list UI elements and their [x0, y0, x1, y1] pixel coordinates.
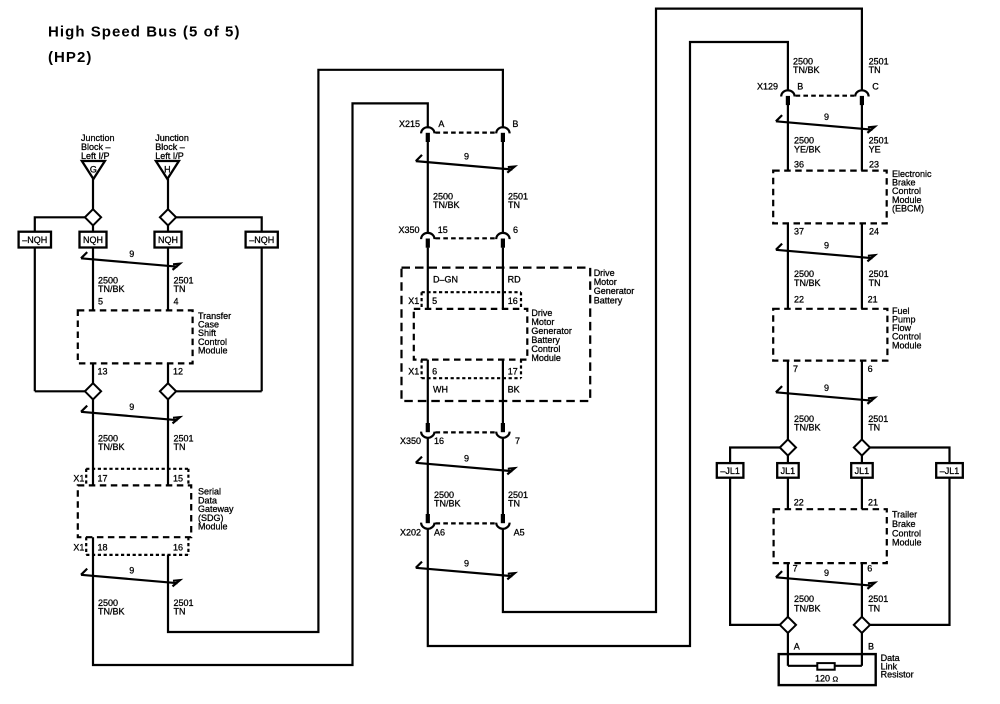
twisted pair symbol [776, 244, 875, 262]
wire junction diamond H [160, 209, 176, 225]
svg-text:21: 21 [868, 295, 878, 305]
svg-text:A: A [438, 119, 444, 129]
module: Trailer Brake Control Module [774, 509, 887, 563]
svg-text:X1: X1 [408, 296, 419, 306]
wire label 2500 TN/BK [794, 269, 821, 288]
wire 2501 YE X129 to EBCM [861, 105, 863, 171]
net tag NQH (G) [80, 232, 107, 248]
svg-text:5: 5 [432, 296, 437, 306]
svg-text:BK: BK [508, 385, 520, 395]
wire diamond to JL1 right [861, 455, 863, 463]
svg-text:16: 16 [434, 436, 444, 446]
wire 2501 X202 A5 to X129 C [503, 9, 862, 612]
svg-text:Left I/P: Left I/P [81, 151, 110, 161]
svg-text:Module: Module [892, 538, 922, 548]
twisted pair symbol [416, 457, 515, 475]
svg-text:120 Ω: 120 Ω [815, 673, 839, 683]
connector X1 band (DMGB bottom) [422, 360, 521, 379]
wire -NQH right join [175, 390, 262, 392]
svg-text:TN/BK: TN/BK [794, 603, 821, 613]
connector X202 pin A6 (up) [421, 514, 434, 529]
svg-text:TN/BK: TN/BK [433, 200, 460, 210]
wire 2500 to SDG [92, 399, 94, 486]
svg-text:–JL1: –JL1 [720, 466, 740, 476]
junction block G label [81, 133, 115, 161]
svg-text:17: 17 [508, 367, 518, 377]
svg-text:16: 16 [508, 296, 518, 306]
svg-text:9: 9 [129, 566, 134, 576]
svg-text:9: 9 [464, 454, 469, 464]
net tag JL1 (2501) [851, 463, 873, 478]
wire label 2501 TN [508, 490, 528, 509]
svg-text:Resistor: Resistor [881, 670, 914, 680]
junction block triangle H [156, 161, 179, 179]
wire 2500 EBCM to FPFCM [787, 223, 789, 308]
wire label 2500 YE/BK [794, 136, 821, 155]
wire pin 12 to diamond [167, 363, 169, 384]
DMGB Control Module label [531, 308, 572, 363]
twisted pair symbol [776, 571, 875, 589]
svg-text:TN: TN [869, 278, 881, 288]
svg-text:YE: YE [869, 144, 881, 154]
net tag NQH (H) [155, 232, 182, 248]
wire label 2501 TN [868, 594, 888, 613]
twisted pair symbol [776, 115, 875, 133]
svg-text:X1: X1 [73, 474, 84, 484]
wire 2501 TBCM to diamond [861, 563, 863, 617]
svg-text:9: 9 [129, 249, 134, 259]
twisted pair symbol [81, 569, 180, 587]
Transfer Case module label [198, 311, 231, 355]
svg-text:–NQH: –NQH [22, 235, 47, 245]
svg-text:TN/BK: TN/BK [98, 607, 125, 617]
wire branch to -NQH right [175, 217, 262, 231]
svg-text:9: 9 [129, 402, 134, 412]
svg-text:X350: X350 [400, 436, 421, 446]
net tag -NQH right [246, 232, 278, 248]
svg-text:9: 9 [824, 112, 829, 122]
svg-text:–JL1: –JL1 [940, 466, 960, 476]
module: Fuel Pump Flow Control Module [773, 309, 887, 361]
module: Serial Data Gateway (SDG) Module [78, 485, 191, 537]
connector X129 pin B [781, 90, 794, 105]
wire label 2501 YE [869, 136, 889, 155]
wire label 2500 TN/BK [98, 434, 125, 453]
svg-text:15: 15 [438, 225, 448, 235]
wire label 2501 TN [869, 56, 889, 75]
svg-text:22: 22 [794, 497, 804, 507]
wire junction diamond A [780, 617, 796, 633]
svg-text:X1: X1 [408, 367, 419, 377]
resistor R 120 ohm [817, 663, 834, 670]
svg-text:6: 6 [867, 564, 872, 574]
connector X1 band (SDG top) [86, 469, 188, 486]
net tag -NQH left [19, 232, 51, 248]
svg-text:6: 6 [513, 225, 518, 235]
svg-text:7: 7 [793, 564, 798, 574]
wire diamond G to NQH [92, 225, 94, 232]
svg-text:TN/BK: TN/BK [794, 278, 821, 288]
svg-text:9: 9 [824, 383, 829, 393]
wire junction diamond 2500 [85, 383, 101, 399]
component box: Data Link Resistor [779, 654, 876, 685]
wire label 2500 TN/BK [793, 56, 820, 75]
module: Drive Motor Generator Battery Control Module [414, 309, 528, 360]
connector X202 dashed link [436, 522, 496, 524]
wire 2501 to SDG [167, 399, 169, 486]
wire label 2500 TN/BK [98, 598, 125, 617]
wire resistor left lead [788, 665, 817, 667]
wire junction diamond B [854, 617, 870, 633]
svg-text:37: 37 [794, 226, 804, 236]
svg-text:TN: TN [174, 607, 186, 617]
wire 2500 X350 to X202 [427, 437, 429, 514]
wire label 2501 TN [869, 269, 889, 288]
wire label 2500 TN/BK [433, 191, 460, 210]
connector X129 dashed link [796, 95, 855, 97]
svg-text:X215: X215 [399, 119, 420, 129]
wire 2500 NQH to pin 5 [92, 248, 94, 311]
net tag JL1 (2500) [777, 463, 799, 478]
svg-text:YE/BK: YE/BK [794, 144, 821, 154]
wire junction diamond G [85, 209, 101, 225]
svg-text:18: 18 [98, 543, 108, 553]
Fuel Pump Flow Control Module label [892, 306, 922, 350]
svg-text:36: 36 [794, 159, 804, 169]
wire 2501 NQH to pin 4 [167, 248, 169, 311]
wire label 2500 TN/BK [434, 490, 461, 509]
svg-text:X129: X129 [757, 82, 778, 92]
svg-text:B: B [797, 82, 803, 92]
wire diamond to JL1 left [787, 455, 789, 463]
svg-text:7: 7 [515, 436, 520, 446]
svg-text:22: 22 [794, 295, 804, 305]
svg-text:B: B [512, 119, 518, 129]
connector X350 pin 6 [496, 233, 509, 248]
net tag -JL1 left [717, 463, 744, 478]
wire 2501 X350 to X202 [502, 437, 504, 514]
svg-text:H: H [164, 164, 171, 174]
wire label 2501 TN [174, 598, 194, 617]
svg-text:TN/BK: TN/BK [98, 284, 125, 294]
junction block triangle G [82, 161, 105, 179]
svg-text:9: 9 [824, 241, 829, 251]
svg-text:TN/BK: TN/BK [794, 423, 821, 433]
wire branch to -NQH left [35, 217, 86, 231]
svg-text:WH: WH [433, 385, 448, 395]
wire -JL1 right down [870, 478, 950, 625]
wire label 2501 TN [868, 414, 888, 433]
svg-text:13: 13 [98, 367, 108, 377]
svg-text:Module: Module [892, 340, 922, 350]
twisted pair symbol [776, 386, 875, 404]
svg-text:A5: A5 [514, 528, 525, 538]
wire WH module down [427, 360, 429, 424]
wire JL1 to TBCM pin 22 [787, 478, 789, 510]
connector X350 pin 16 (up) [421, 423, 434, 438]
svg-text:TN: TN [174, 284, 186, 294]
svg-text:17: 17 [98, 474, 108, 484]
svg-text:G: G [90, 164, 97, 174]
connector X350 dashed link [436, 431, 496, 433]
svg-text:JL1: JL1 [855, 466, 870, 476]
wire label 2500 TN/BK [98, 276, 125, 295]
svg-text:X202: X202 [400, 528, 421, 538]
wire -NQH right down [261, 248, 263, 392]
wire 2500 X202 A6 to X129 B [428, 42, 788, 646]
svg-text:A: A [794, 641, 800, 651]
svg-text:TN: TN [868, 423, 880, 433]
wire junction diamond 2500 [780, 439, 796, 455]
Trailer Brake Control Module label [892, 510, 922, 548]
wire label 2501 TN [174, 276, 194, 295]
wire diamond to resistor A [787, 633, 789, 666]
svg-text:NQH: NQH [158, 235, 178, 245]
wire 2500 FPFCM to diamond [787, 361, 789, 441]
wire 2500 YE/BK X129 to EBCM [787, 105, 789, 171]
twisted pair symbol [416, 155, 515, 173]
svg-text:Left I/P: Left I/P [155, 151, 184, 161]
EBCM label [892, 169, 932, 213]
wire branch to -JL1 right [870, 448, 950, 464]
svg-text:Battery: Battery [594, 295, 623, 305]
Data Link Resistor label [881, 653, 914, 680]
svg-text:A6: A6 [434, 528, 445, 538]
module: Electronic Brake Control Module (EBCM) [773, 171, 887, 224]
svg-text:TN: TN [174, 442, 186, 452]
wire 2501 FPFCM to diamond [861, 361, 863, 441]
svg-text:15: 15 [173, 474, 183, 484]
wire RD X350 to module [502, 248, 504, 309]
wire BK module down [502, 360, 504, 424]
svg-text:RD: RD [508, 275, 521, 285]
svg-text:TN/BK: TN/BK [98, 442, 125, 452]
svg-text:High Speed Bus (5 of 5): High Speed Bus (5 of 5) [48, 24, 241, 41]
wire label 2501 TN [508, 191, 528, 210]
Drive Motor Generator Battery label [594, 268, 635, 306]
connector X215 pin B [496, 127, 509, 142]
connector X215 pin A [421, 127, 434, 142]
svg-text:–NQH: –NQH [249, 235, 274, 245]
wire from H to junction [167, 179, 169, 210]
svg-text:21: 21 [868, 497, 878, 507]
svg-text:X1: X1 [73, 543, 84, 553]
wire -JL1 left down [730, 478, 780, 625]
wire label 2500 TN/BK [794, 594, 821, 613]
wire branch to -JL1 left [730, 448, 780, 464]
SDG module label [198, 487, 234, 532]
svg-text:Module: Module [198, 522, 228, 532]
svg-text:9: 9 [464, 152, 469, 162]
connector X215 dashed link [436, 132, 496, 134]
wire JL1 to TBCM pin 21 [861, 478, 863, 510]
svg-text:JL1: JL1 [781, 466, 796, 476]
wire 2501 SDG pin 16 to X215 B [168, 70, 503, 632]
connector X1 band (DMGB top) [422, 292, 521, 309]
wire diamond H to NQH [167, 225, 169, 232]
module: Transfer Case Shift Control Module [78, 310, 193, 363]
twisted pair symbol [81, 406, 180, 424]
wire 2500 SDG pin 18 to X215 A [93, 103, 428, 665]
svg-text:TN/BK: TN/BK [434, 499, 461, 509]
svg-text:12: 12 [173, 367, 183, 377]
wire junction diamond 2501 [160, 383, 176, 399]
svg-text:B: B [868, 641, 874, 651]
connector X350 pin 15 [421, 233, 434, 248]
net tag -JL1 right [936, 463, 963, 478]
svg-text:TN: TN [508, 200, 520, 210]
wire -NQH left join [35, 390, 86, 392]
assembly box: Drive Motor Generator Battery [402, 268, 591, 401]
svg-text:Module: Module [198, 345, 228, 355]
junction block H label [155, 133, 189, 161]
svg-text:6: 6 [868, 364, 873, 374]
svg-text:16: 16 [173, 543, 183, 553]
connector X1 band (SDG bottom) [86, 537, 188, 555]
wire 2500 TBCM to diamond [787, 563, 789, 617]
wire resistor right lead [835, 665, 862, 667]
svg-text:Module: Module [531, 353, 561, 363]
svg-text:TN/BK: TN/BK [793, 65, 820, 75]
twisted pair symbol [416, 562, 515, 580]
connector X129 pin C [855, 90, 868, 105]
svg-text:(HP2): (HP2) [48, 49, 92, 66]
connector X350 dashed link [436, 237, 496, 239]
svg-text:D–GN: D–GN [433, 275, 458, 285]
svg-text:TN: TN [869, 65, 881, 75]
svg-text:6: 6 [432, 367, 437, 377]
wire label 2500 TN/BK [794, 414, 821, 433]
svg-text:(EBCM): (EBCM) [892, 203, 924, 213]
svg-text:C: C [872, 82, 879, 92]
connector X350 pin 7 (up) [496, 423, 509, 438]
wire 2501 EBCM to FPFCM [861, 223, 863, 308]
svg-text:TN: TN [508, 499, 520, 509]
wire pin 13 to diamond [92, 363, 94, 384]
svg-text:9: 9 [464, 559, 469, 569]
wire D-GN X350 to module [427, 248, 429, 309]
twisted pair symbol [81, 252, 180, 270]
wire -NQH left down [34, 248, 36, 392]
svg-text:X350: X350 [399, 225, 420, 235]
wire from G to junction [92, 179, 94, 210]
wire 2501 X215 B down [502, 142, 504, 234]
svg-text:TN: TN [868, 603, 880, 613]
svg-text:4: 4 [174, 297, 179, 307]
svg-text:5: 5 [98, 297, 103, 307]
svg-text:23: 23 [869, 159, 879, 169]
svg-text:9: 9 [824, 568, 829, 578]
wire diamond to resistor B [861, 633, 863, 666]
wire junction diamond 2501 [854, 439, 870, 455]
svg-text:24: 24 [869, 226, 879, 236]
connector X202 pin A5 (up) [496, 514, 509, 529]
svg-text:7: 7 [793, 364, 798, 374]
wire label 2501 TN [174, 434, 194, 453]
wire 2500 X215 A down [427, 142, 429, 234]
svg-text:NQH: NQH [83, 235, 103, 245]
